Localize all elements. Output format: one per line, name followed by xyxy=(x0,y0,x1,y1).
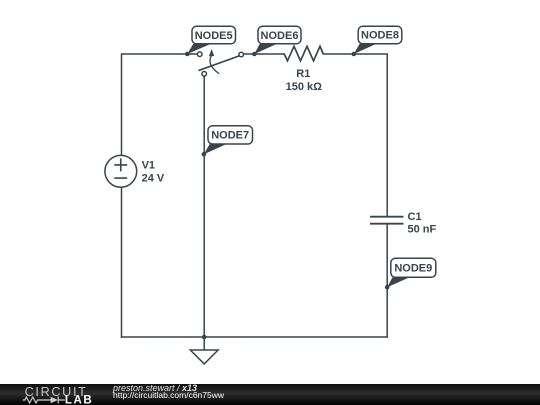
footer text line 2 xyxy=(113,391,224,400)
svg-text:NODE8: NODE8 xyxy=(361,30,399,42)
svg-text:NODE5: NODE5 xyxy=(195,30,233,42)
wire left-bottom xyxy=(121,187,123,337)
wire switch to resistor xyxy=(244,53,285,55)
ground xyxy=(203,337,205,350)
callout box NODE6 xyxy=(258,26,301,44)
svg-text:NODE6: NODE6 xyxy=(261,30,299,42)
switch terminals xyxy=(197,52,202,57)
resistor R1 xyxy=(284,46,323,61)
footer bar xyxy=(0,384,540,405)
svg-text:NODE9: NODE9 xyxy=(394,263,432,275)
svg-text:R1: R1 xyxy=(296,68,310,80)
voltage source V1 xyxy=(105,155,137,187)
node dot NODE7 xyxy=(202,152,207,157)
svg-text:V1: V1 xyxy=(142,160,155,172)
callout tail NODE6 xyxy=(254,44,276,54)
svg-text:C1: C1 xyxy=(408,211,422,223)
switch SW lever xyxy=(199,56,239,70)
switch arrow head xyxy=(209,49,214,56)
wire capacitor to bottom-right corner xyxy=(386,225,388,337)
svg-text:24 V: 24 V xyxy=(142,172,165,184)
callout tail NODE5 xyxy=(187,44,210,54)
capacitor C1 xyxy=(370,217,404,224)
callout tail NODE8 xyxy=(354,44,377,54)
junction dot ground xyxy=(202,335,207,340)
node dot NODE5 xyxy=(185,52,190,57)
wire resistor to top-right corner xyxy=(323,54,387,216)
CircuitLab logo xyxy=(0,384,110,405)
node dot NODE9 xyxy=(385,285,390,290)
callout box NODE5 xyxy=(192,26,236,44)
wire top-left xyxy=(122,54,197,155)
node dot NODE8 xyxy=(352,52,357,57)
callout tail NODE9 xyxy=(387,278,409,288)
callout tail NODE7 xyxy=(204,144,226,154)
wire bottom xyxy=(122,336,388,338)
svg-text:50 nF: 50 nF xyxy=(408,224,437,236)
svg-text:NODE7: NODE7 xyxy=(211,130,249,142)
footer text line 1 xyxy=(113,384,197,393)
callout box NODE8 xyxy=(358,26,402,44)
svg-text:LAB: LAB xyxy=(65,395,93,405)
callout box NODE7 xyxy=(208,126,253,144)
wire switch common down xyxy=(203,76,205,337)
svg-text:150 kΩ: 150 kΩ xyxy=(286,81,323,93)
switch arrow xyxy=(210,56,219,74)
callout box NODE9 xyxy=(391,258,436,277)
node dot NODE6 xyxy=(252,52,257,57)
